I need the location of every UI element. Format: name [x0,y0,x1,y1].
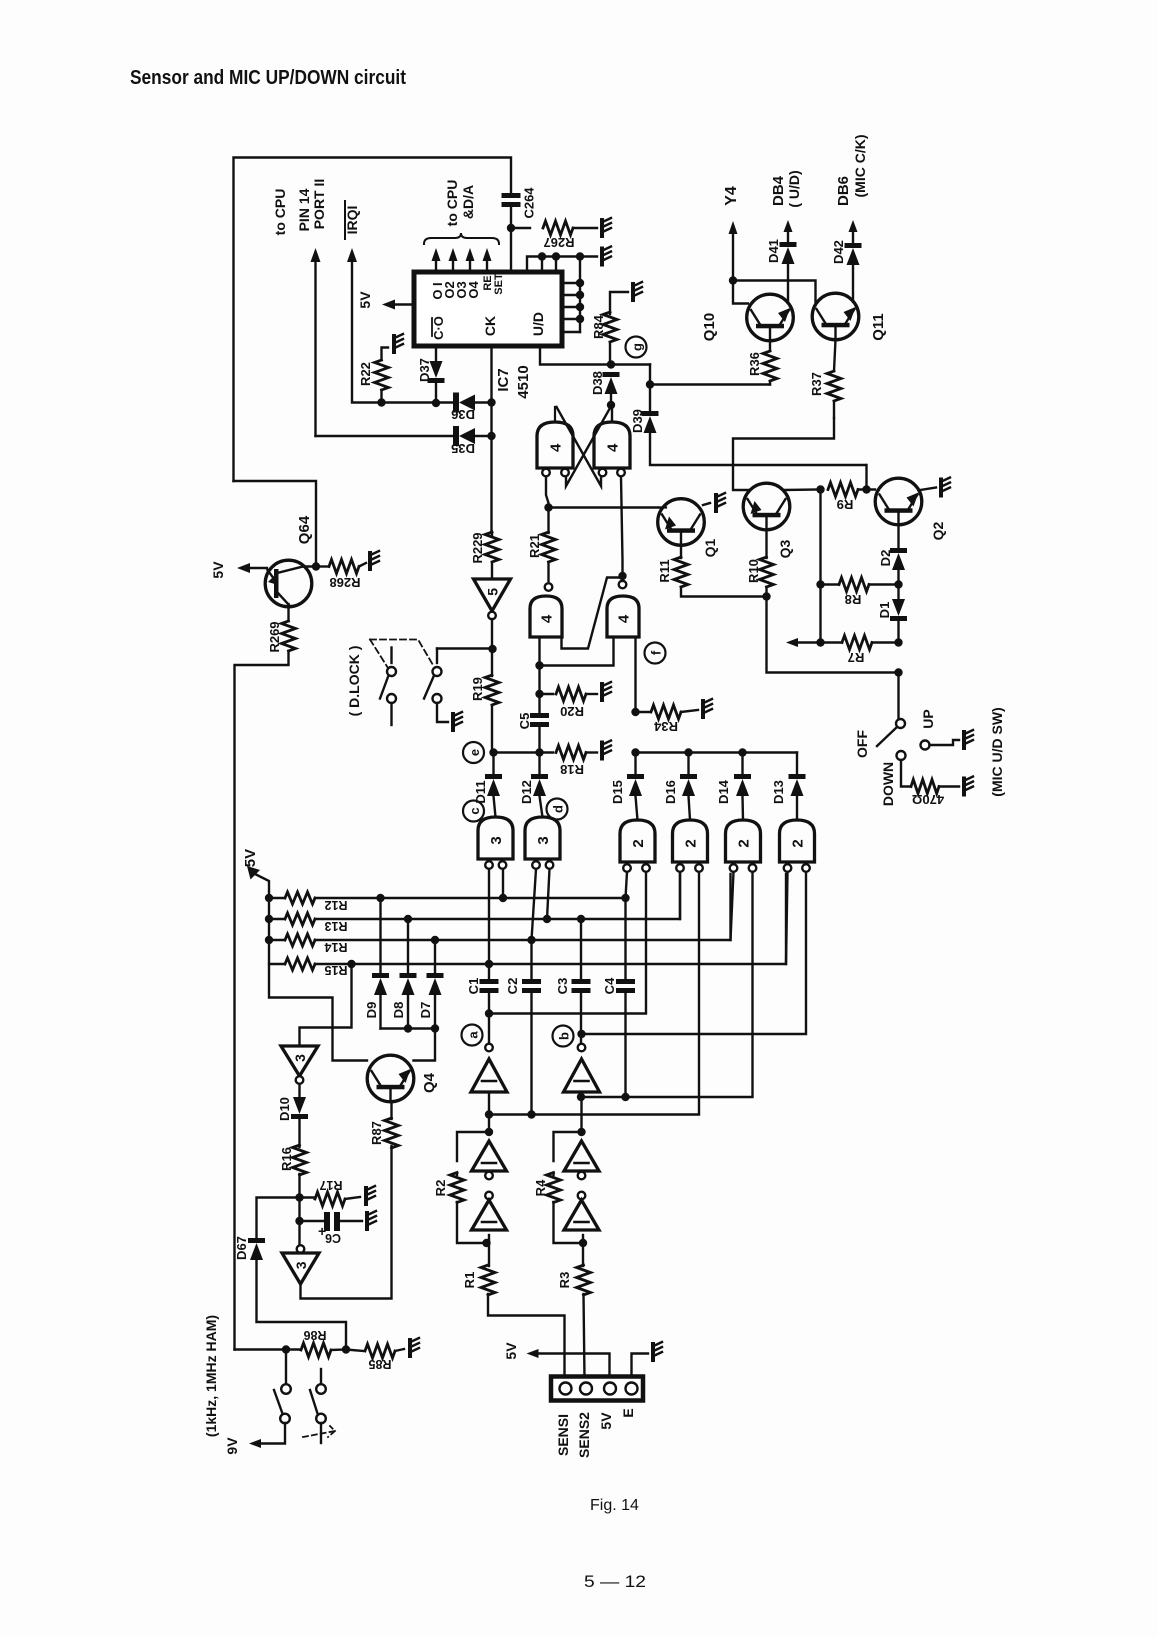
node R17 junction [295,1193,303,1201]
wire frame to Q64 base [234,481,317,567]
wire 5V arrow IC left [382,300,395,310]
node b [553,1026,574,1047]
resistor R268 [316,565,328,567]
svg-text:4: 4 [539,614,556,623]
svg-text:4510: 4510 [515,365,532,398]
resistor R12 [265,894,273,902]
svg-text:3: 3 [535,836,552,844]
svg-text:D8: D8 [391,1002,406,1019]
gate U4a NAND 3 left [478,817,513,859]
svg-text:R229: R229 [470,532,485,563]
switch HAM B [320,1369,322,1384]
gate U5b NAND 2 no2 [673,820,708,862]
diode D1 [892,599,905,616]
node c [463,801,484,822]
svg-text:U/D: U/D [530,312,546,336]
svg-text:D7: D7 [418,1002,433,1019]
node Y4 junction [729,276,737,284]
gate U5c NAND 2 no3 [726,820,761,862]
svg-text:2: 2 [683,839,700,847]
svg-text:D13: D13 [771,780,786,804]
gate U5a NAND 2 no1 [620,820,655,862]
ground RESET [600,249,604,265]
svg-text:D42: D42 [831,240,846,264]
wire matrix col 2d-R [582,872,807,1034]
switch HAM A [285,1350,287,1385]
wire 3b output to R87 [301,1146,392,1299]
svg-text:C5: C5 [517,713,532,730]
resistor R22 [380,390,382,403]
svg-text:R85: R85 [368,1357,391,1371]
diode D42 [852,265,854,301]
wire Y4 arrow [729,221,738,234]
node R86 right [342,1345,350,1353]
svg-text:D16: D16 [663,780,678,804]
svg-text:(MIC U/D SW): (MIC U/D SW) [989,707,1005,796]
ground R34 [701,701,705,717]
node Q2 bottom junction [894,668,902,676]
svg-text:Q11: Q11 [870,313,887,341]
svg-text:R1: R1 [462,1272,477,1289]
node junction C264-R267 [507,224,515,232]
ground D.LOCK [451,714,455,730]
capacitor C5 [538,694,540,713]
inverter 3b [297,1245,305,1253]
svg-text:C3: C3 [555,978,570,995]
svg-text:to CPU: to CPU [272,189,288,236]
wire g line right [650,365,770,385]
svg-text:470Ω: 470Ω [912,792,944,807]
wire matrix col 2a-R [489,872,646,1014]
wire matrix col 2c-R [581,872,753,1097]
svg-text:Y4: Y4 [723,186,740,206]
svg-text:4: 4 [616,614,633,623]
node e junction [535,748,543,756]
svg-text:Fig. 14: Fig. 14 [590,1497,639,1514]
node Q64 base [312,562,320,570]
svg-text:R10: R10 [746,559,761,583]
wire PORT II arrow [311,248,321,262]
svg-text:5V: 5V [357,291,373,309]
wire matrix col 2b-R [489,872,699,1115]
svg-text:2: 2 [630,839,647,847]
wire U/D pin to R84 bottom [540,346,650,365]
transistor Q3 [743,483,790,530]
ground R18 [600,743,604,759]
transistor Q2 [875,478,922,525]
resistor R21 [547,508,549,534]
diode D37 [435,346,437,360]
svg-text:D41: D41 [766,239,781,263]
svg-text:UP: UP [920,709,936,728]
diode D13 [796,753,798,775]
gate U3a NAND 4 left [545,583,553,591]
resistor R11 [680,545,682,558]
IC U1 IC7 4510 [414,272,562,346]
wire matrix col 3b-R [547,869,550,919]
svg-text:d: d [551,805,566,813]
svg-text:R7: R7 [848,650,865,665]
node C6 junction [295,1217,303,1225]
diode D7 [431,936,439,944]
wire 5V Q64 [249,567,267,569]
svg-text:5V: 5V [210,561,226,579]
inverter a [485,1044,493,1052]
svg-text:R87: R87 [369,1121,384,1145]
diode D38 [603,372,620,377]
svg-text:4: 4 [605,443,622,452]
wire U3a inputs [538,637,540,694]
svg-text:Q1: Q1 [702,538,718,557]
node R15 tap [347,960,355,968]
resistor R13 [265,915,273,923]
svg-text:Sensor and MIC UP/DOWN circuit: Sensor and MIC UP/DOWN circuit [130,67,406,89]
svg-text:R17: R17 [319,1178,342,1192]
ground R22 [392,336,396,352]
svg-text:2: 2 [736,839,753,847]
resistor R1 [481,1265,495,1295]
node R3 top [579,1239,587,1247]
wire D.LOCK linkage dashed [370,640,433,666]
capacitor C4 [616,979,635,984]
svg-text:( D.LOCK ): ( D.LOCK ) [346,646,362,717]
svg-text:R11: R11 [657,559,672,582]
wire R19 to e [491,705,493,753]
capacitor C2 [522,979,541,984]
wire R21 node to Q1 base [549,506,660,508]
svg-text:b: b [557,1032,572,1040]
node R7 right [894,638,902,646]
svg-text:D37: D37 [417,358,432,382]
wire inverter a output [488,1092,490,1132]
wire IC output arrows to CPU D/A [432,248,441,261]
diode D39 [649,385,651,412]
node U3a-U3b link [535,661,543,669]
svg-text:O4: O4 [466,281,481,299]
svg-text:Q10: Q10 [701,313,718,341]
svg-text:DOWN: DOWN [880,762,896,806]
svg-text:D2: D2 [878,550,893,567]
svg-text:4: 4 [548,443,565,452]
svg-text:R36: R36 [747,352,762,376]
resistor R14 [265,936,273,944]
wire latch cross coupling [557,407,602,486]
resistor R19 [485,675,499,705]
capacitor C3 [572,979,591,984]
svg-text:R34: R34 [653,719,678,734]
wire matrix col 3b-L C2 [532,869,537,979]
svg-text:D12: D12 [519,780,534,804]
ground R17 [364,1188,368,1204]
node R9 left [816,485,824,493]
node R86 left [282,1345,290,1353]
wire 9V bus [235,1348,287,1350]
svg-text:+: + [318,1223,326,1239]
connector J1 [551,1377,643,1401]
svg-text:(1kHz, 1MHz HAM): (1kHz, 1MHz HAM) [203,1315,219,1437]
svg-text:D35: D35 [451,441,475,456]
transistor Q10 [747,294,794,341]
svg-text:C2: C2 [505,978,520,995]
wire latch A output to R21 node [546,477,549,508]
node R10 bottom [762,592,770,600]
ground E [651,1344,655,1360]
diode D41 [787,264,789,302]
resistor R269 [287,604,289,621]
svg-text:D1: D1 [877,602,892,619]
node e [489,748,497,756]
inverter b2 [564,1141,599,1171]
svg-text:C·O: C·O [431,316,446,340]
node R7 left [816,638,824,646]
node R8 right [894,580,902,588]
svg-text:Q3: Q3 [777,539,793,558]
node DLOCK junction [488,645,496,653]
svg-text:&D/A: &D/A [460,185,476,219]
svg-text:R4: R4 [533,1179,548,1196]
svg-text:SET: SET [493,273,505,295]
svg-text:5V: 5V [598,1412,614,1430]
resistor R87 [385,1118,399,1148]
node R8 left [816,580,824,588]
svg-text:PIN 14: PIN 14 [296,188,312,231]
capacitor C264 [502,193,521,198]
wire latch B output down [621,477,623,576]
svg-text:C264: C264 [522,187,537,219]
ground R20 [600,684,604,700]
svg-text:R2: R2 [433,1180,448,1197]
svg-text:R8: R8 [845,592,862,607]
inverter 3a [281,1046,318,1076]
svg-text:C1: C1 [466,978,481,995]
svg-text:C6: C6 [325,1231,341,1245]
svg-text:E: E [620,1408,636,1417]
svg-text:D36: D36 [451,407,475,422]
node R20 junction [535,690,543,698]
svg-text:9V: 9V [224,1437,240,1455]
resistor R85 [346,1350,363,1352]
node R9 right [862,485,870,493]
wire Q10 area to Q3 collector [733,418,834,490]
resistor R37 [834,340,836,371]
resistor R84 [610,292,628,314]
resistor R86 [286,1348,300,1350]
svg-text:D67: D67 [234,1236,249,1260]
svg-text:R267: R267 [543,235,574,250]
wire D9-D7 bus to Q4 [381,1027,436,1029]
svg-text:R21: R21 [527,534,542,558]
svg-text:IC7: IC7 [495,368,512,391]
ground R85 [408,1340,412,1356]
resistor R10 [765,530,767,559]
svg-text:PORT II: PORT II [311,179,327,230]
svg-text:(MIC C/K): (MIC C/K) [852,135,868,198]
svg-text:C4: C4 [602,977,617,994]
inverter a2 [472,1141,507,1171]
svg-text:3: 3 [488,836,505,844]
svg-text:5V: 5V [242,849,259,867]
resistor R18 [540,751,554,753]
svg-text:R12: R12 [324,898,347,912]
svg-text:DB4: DB4 [770,175,787,206]
svg-text:D39: D39 [630,409,645,433]
svg-text:R22: R22 [358,362,373,386]
svg-text:D10: D10 [277,1097,292,1121]
resistor R7 [842,636,872,650]
svg-text:R86: R86 [303,1328,326,1342]
inverter b3 [578,1192,586,1200]
svg-text:D11: D11 [473,780,488,803]
wire Y4 to Q11 base [733,281,816,305]
ground UP [962,732,966,748]
wire IRQI arrow [347,248,357,262]
node g [626,337,647,358]
resistor R17 [300,1196,315,1198]
switch MIC U/D OFF-UP-DOWN [897,673,899,720]
wire U3a right input to latch B output [562,578,623,649]
wire IC right pin bus [579,257,581,333]
capacitor C1 [480,979,499,984]
wire matrix col 2b-L [679,872,681,919]
gate U5d NAND 2 no4 [780,820,815,862]
svg-text:Q4: Q4 [421,1072,438,1093]
node D39 top [646,380,654,388]
transistor Q4 [367,1055,414,1102]
diode D15 [634,753,636,775]
wire inverter b output [580,1092,582,1132]
node f [645,643,666,664]
wire HAM linkage dashed [303,1426,335,1437]
resistor R4 [554,1132,582,1161]
ground R84 [631,284,635,300]
resistor R2 [457,1132,489,1161]
node D15 bus [631,748,639,756]
svg-text:c: c [467,807,482,814]
transistor Q64 [265,560,312,607]
resistor R20 [540,693,554,695]
svg-text:to CPU: to CPU [444,180,460,227]
wire diode bus [636,751,798,753]
svg-text:R9: R9 [837,497,854,512]
ground C6 [365,1213,369,1229]
svg-text:g: g [630,343,645,351]
svg-text:D9: D9 [364,1002,379,1019]
ground DOWN [962,779,966,795]
wire R7 arrow [798,641,821,643]
svg-text:2: 2 [790,839,807,847]
node CK bus D35 [487,432,495,440]
wire Q2 left bus [819,490,821,643]
svg-text:SENS2: SENS2 [576,1412,592,1458]
resistor R34 [631,708,639,716]
svg-text:5 — 12: 5 — 12 [584,1572,646,1591]
node D37-D36 junction [432,399,440,407]
gate U2b NAND 4 latch right [594,422,630,468]
wire U3b right input down [634,637,636,712]
svg-text:R16: R16 [279,1147,294,1171]
svg-text:( U/D): ( U/D) [786,170,802,207]
wire matrix col 3a-R [502,869,504,898]
svg-text:R3: R3 [557,1272,572,1289]
svg-text:3: 3 [292,1054,308,1062]
transistor Q1 [658,499,705,546]
svg-text:R18: R18 [560,762,584,777]
svg-text:a: a [466,1031,481,1039]
svg-text:DB6: DB6 [835,176,852,206]
node CK bus D36 [487,398,495,406]
resistor R36 [769,341,771,351]
node R21 junction [544,503,552,511]
diode D16 [687,753,689,775]
svg-text:R37: R37 [809,372,824,396]
wire R15 to inverter 3a [300,964,352,1046]
svg-text:OFF: OFF [854,730,870,758]
wire E ground [632,1354,649,1379]
diode D10 [298,1084,300,1097]
resistor R3 [577,1265,591,1295]
svg-text:Q64: Q64 [296,515,313,544]
wire inverter 5 output [491,619,493,676]
node d [547,799,568,820]
svg-text:IRQI: IRQI [344,206,360,235]
wire matrix col 2c-L [731,872,734,940]
svg-text:R19: R19 [470,677,485,701]
diode D12 [538,753,540,775]
svg-text:R20: R20 [560,704,584,719]
svg-text:e: e [467,749,482,756]
svg-text:5: 5 [485,588,501,596]
ground Q2 [939,480,943,496]
wire matrix col C4 [626,872,628,979]
diode D9 [376,894,384,902]
diode D67 [257,1198,300,1239]
svg-text:SENSI: SENSI [555,1414,571,1456]
resistor R267 [511,227,530,229]
diode D14 [741,753,743,775]
inverter 5 [474,579,511,611]
diode D11 [492,753,494,775]
svg-text:R14: R14 [324,940,347,954]
resistor R15 [269,963,284,965]
svg-text:R13: R13 [324,919,347,933]
gate U3b NAND 4 right [619,581,627,589]
resistor R16 [293,1145,307,1175]
ground R268 [368,553,372,569]
svg-text:5V: 5V [503,1342,519,1360]
resistor R8 [839,578,869,592]
node R1 top [482,1239,490,1247]
gate U4b NAND 3 right [525,817,560,859]
svg-text:CK: CK [482,316,498,336]
svg-text:R84: R84 [591,314,606,339]
svg-text:R15: R15 [324,963,347,977]
capacitor C6 [300,1220,324,1222]
wire top frame [234,158,512,482]
wire matrix col C3 [577,915,585,923]
ground R267 [600,220,604,236]
diode D8 [404,915,412,923]
diode D2 [897,525,899,548]
gate U2a NAND 4 latch left [537,422,573,468]
wire RESET line [527,257,597,273]
svg-text:D38: D38 [590,371,605,395]
resistor 470ohm [911,780,939,794]
ground Q1 [714,495,718,511]
diode D35 [453,426,459,446]
inverter a3 [485,1192,493,1200]
svg-text:f: f [649,650,664,655]
svg-text:D15: D15 [610,780,625,804]
